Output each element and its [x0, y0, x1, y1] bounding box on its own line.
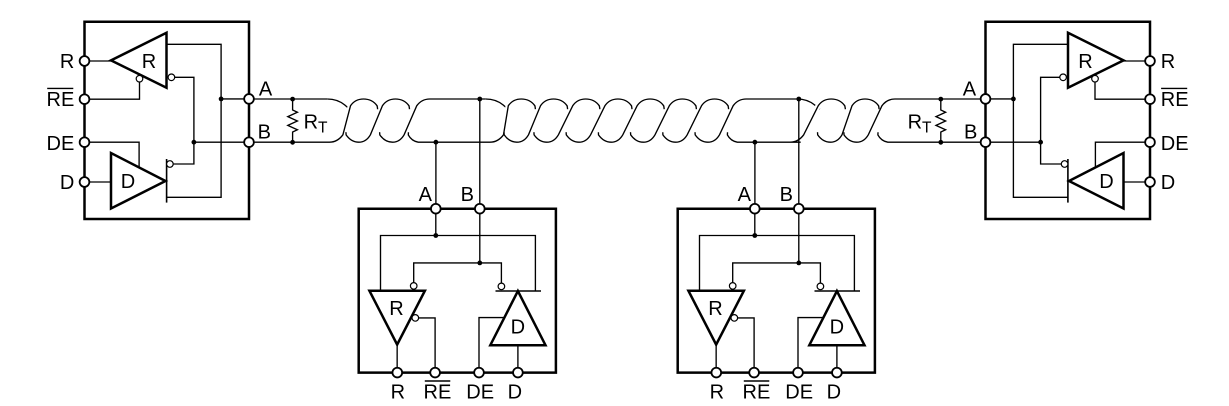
- svg-text:DE: DE: [47, 133, 75, 155]
- svg-text:R: R: [1161, 51, 1175, 73]
- svg-text:RE: RE: [424, 381, 452, 403]
- svg-text:D: D: [830, 317, 844, 339]
- svg-text:D: D: [1161, 172, 1175, 194]
- svg-text:A: A: [738, 184, 752, 206]
- svg-text:D: D: [827, 381, 841, 403]
- svg-text:DE: DE: [785, 381, 813, 403]
- svg-text:B: B: [258, 122, 271, 144]
- svg-text:A: A: [259, 78, 273, 100]
- svg-text:B: B: [780, 184, 793, 206]
- svg-text:RE: RE: [1161, 89, 1189, 111]
- svg-text:R: R: [60, 51, 74, 73]
- svg-text:R: R: [1078, 51, 1092, 73]
- svg-text:B: B: [964, 122, 977, 144]
- svg-text:R: R: [710, 381, 724, 403]
- svg-text:RE: RE: [743, 381, 771, 403]
- svg-text:R: R: [708, 298, 722, 320]
- svg-text:R: R: [391, 381, 405, 403]
- svg-text:DE: DE: [466, 381, 494, 403]
- svg-text:D: D: [60, 172, 74, 194]
- svg-text:D: D: [511, 317, 525, 339]
- svg-text:DE: DE: [1161, 133, 1189, 155]
- svg-text:A: A: [963, 78, 977, 100]
- svg-text:D: D: [1099, 171, 1113, 193]
- svg-text:D: D: [508, 381, 522, 403]
- svg-text:R: R: [142, 51, 156, 73]
- svg-text:D: D: [121, 171, 135, 193]
- svg-text:B: B: [461, 184, 474, 206]
- svg-text:RE: RE: [47, 89, 75, 111]
- svg-text:R: R: [389, 298, 403, 320]
- svg-text:A: A: [419, 184, 433, 206]
